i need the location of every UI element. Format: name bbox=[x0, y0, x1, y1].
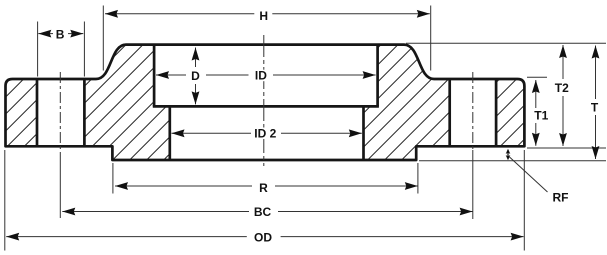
raised face bottom extension line bbox=[419, 160, 606, 162]
OD left extension line bbox=[4, 150, 6, 251]
svg-text:ID: ID bbox=[255, 68, 267, 82]
svg-text:ID 2: ID 2 bbox=[254, 127, 276, 141]
dimension T bbox=[591, 46, 600, 160]
B right extension line bbox=[83, 22, 85, 77]
hatch left hub body bbox=[84, 45, 169, 160]
RF thickness arrows bbox=[506, 149, 511, 161]
right bolt hole left wall bbox=[448, 79, 451, 146]
socket ledge bbox=[153, 105, 379, 108]
right bolt hole right wall bbox=[495, 79, 498, 146]
ring bottom extension line bbox=[527, 147, 606, 149]
R left extension line bbox=[112, 163, 114, 194]
dimension ID bbox=[156, 68, 376, 82]
svg-text:R: R bbox=[259, 181, 268, 195]
hatch right hub body bbox=[364, 45, 450, 160]
bore ID2 right wall bbox=[362, 106, 365, 159]
dimension OD bbox=[6, 230, 523, 244]
svg-text:BC: BC bbox=[254, 205, 272, 219]
left bolt hole left wall bbox=[36, 79, 39, 146]
hatch left outer ring bbox=[6, 79, 38, 146]
BC left extension line bbox=[59, 152, 61, 218]
H right extension line bbox=[430, 6, 432, 71]
right bolt centerline bbox=[472, 72, 474, 152]
svg-text:D: D bbox=[191, 69, 200, 83]
OD right extension line bbox=[523, 150, 525, 251]
dimension T2 bbox=[555, 45, 569, 146]
hatch right outer ring bbox=[496, 79, 524, 146]
hub top extension line bbox=[406, 42, 606, 44]
dimension B bbox=[38, 27, 83, 41]
svg-text:RF: RF bbox=[553, 190, 569, 204]
bore ID2 left wall bbox=[168, 106, 171, 159]
R right extension line bbox=[417, 163, 419, 194]
ring top extension line bbox=[527, 76, 547, 78]
socket bore right wall bbox=[376, 45, 379, 106]
left bolt centerline bbox=[59, 72, 61, 152]
dimension ID 2 bbox=[172, 127, 362, 141]
svg-text:OD: OD bbox=[254, 230, 272, 244]
svg-text:B: B bbox=[56, 27, 65, 41]
flange outer outline bbox=[6, 45, 525, 160]
socket bore left wall bbox=[153, 45, 156, 106]
svg-text:H: H bbox=[259, 9, 268, 23]
main vertical centerline bbox=[263, 35, 265, 166]
B left extension line bbox=[37, 22, 39, 77]
dimension D (socket depth) bbox=[191, 48, 200, 105]
dimension H bbox=[105, 9, 430, 23]
RF leader line bbox=[510, 157, 548, 192]
H left extension line bbox=[102, 6, 104, 71]
svg-text:T1: T1 bbox=[534, 109, 548, 123]
svg-text:T: T bbox=[591, 101, 599, 115]
svg-text:T2: T2 bbox=[555, 81, 569, 95]
dimension R bbox=[115, 181, 418, 195]
dimension BC bbox=[62, 205, 472, 219]
left bolt hole right wall bbox=[83, 79, 86, 146]
dimension T1 bbox=[532, 80, 549, 146]
BC right extension line bbox=[472, 150, 474, 219]
